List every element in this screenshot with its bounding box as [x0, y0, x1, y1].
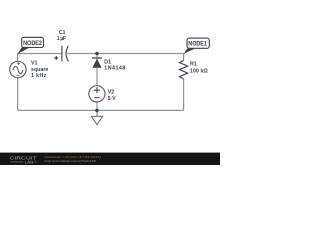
R1 labels — [190, 61, 209, 74]
wire middle branch (V2 bottom to bottom rail) — [96, 102, 98, 111]
V1 labels — [31, 61, 48, 79]
svg-text:5 V: 5 V — [108, 96, 116, 102]
node B junction dot (ground tap on bottom rail) — [95, 109, 99, 113]
wire top right segment (C1 right plate to NODE1 corner) — [67, 53, 183, 55]
svg-text:V1: V1 — [31, 61, 38, 67]
svg-text:C1: C1 — [59, 30, 66, 36]
svg-text:D1: D1 — [104, 60, 111, 66]
wire ground stub — [96, 110, 98, 116]
voltage source V1 — [10, 61, 26, 77]
watermark bar — [0, 153, 220, 165]
wire left vertical lower (V1 bottom to bottom rail) — [17, 78, 19, 111]
svg-text:1 kHz: 1 kHz — [31, 73, 47, 79]
ground — [91, 116, 102, 124]
svg-text:1 µF: 1 µF — [57, 36, 67, 42]
wire bottom rail — [18, 109, 184, 111]
wire top left segment (NODE2 corner to C1 left plate) — [18, 53, 62, 55]
svg-text:1N4148: 1N4148 — [104, 66, 125, 72]
node A junction dot (D1 tap on top rail) — [95, 52, 99, 56]
node NODE2 flag — [17, 37, 43, 54]
voltage source V2 — [89, 86, 105, 102]
svg-text:http://circuitlab.com/c/hab4a5: http://circuitlab.com/c/hab4a5 — [44, 159, 96, 163]
svg-text:R1: R1 — [190, 61, 197, 67]
wire left vertical upper (corner to V1 top) — [17, 54, 19, 62]
svg-text:LAB: LAB — [25, 161, 35, 165]
wire middle branch (D1 anode to V2 top) — [96, 68, 98, 86]
node NODE1 flag — [183, 38, 209, 54]
capacitor C1 — [54, 46, 68, 62]
wire middle branch (junction to D1 cathode) — [96, 54, 98, 59]
svg-text:100 kΩ: 100 kΩ — [190, 68, 209, 74]
diode D1 labels — [104, 60, 125, 72]
diode D1 — [92, 58, 102, 68]
watermark CircuitLab logo — [10, 156, 37, 165]
resistor R1 — [179, 61, 187, 79]
wire right vertical upper (NODE1 corner to R1 top) — [183, 54, 185, 61]
wire right vertical lower (R1 bottom to bottom rail) — [183, 79, 185, 111]
capacitor C1 value labels — [57, 30, 67, 42]
V2 labels — [108, 90, 116, 102]
svg-text:V2: V2 — [108, 90, 115, 96]
svg-text:NODE1: NODE1 — [188, 41, 207, 48]
svg-text:NODE2: NODE2 — [23, 40, 42, 47]
